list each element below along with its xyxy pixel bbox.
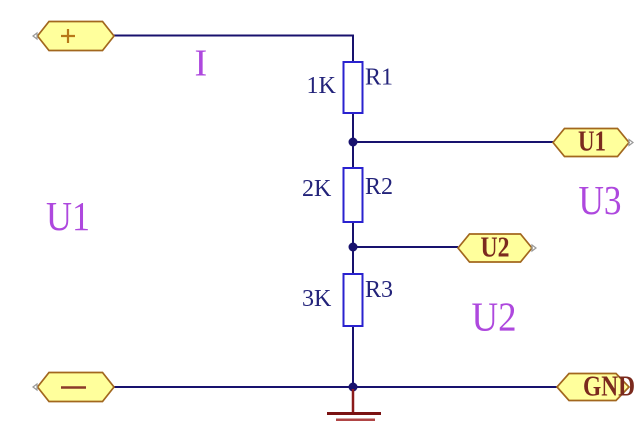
svg-text:R1: R1 — [365, 65, 393, 91]
svg-text:U1: U1 — [46, 193, 90, 239]
svg-text:R3: R3 — [365, 277, 393, 303]
svg-text:1K: 1K — [307, 73, 337, 99]
svg-text:U3: U3 — [579, 177, 622, 223]
svg-text:U1: U1 — [578, 126, 606, 158]
svg-text:3K: 3K — [302, 286, 332, 312]
svg-text:2K: 2K — [302, 176, 332, 202]
svg-text:U2: U2 — [481, 232, 510, 264]
svg-text:GND: GND — [583, 371, 635, 403]
svg-text:I: I — [195, 43, 208, 85]
svg-text:R2: R2 — [365, 174, 393, 200]
svg-text:U2: U2 — [472, 294, 517, 340]
